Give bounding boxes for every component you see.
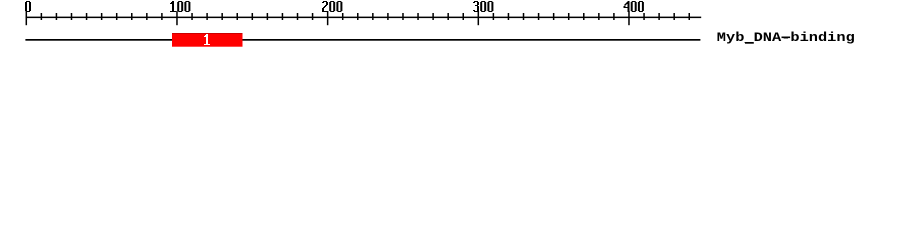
- ruler label 300: [473, 1, 493, 12]
- ruler line: [26, 17, 702, 19]
- ruler minor ticks: [41, 13, 690, 20]
- ruler label 200: [322, 1, 342, 12]
- domain box 1 (Myb_DNA-binding), drawn under domain number: [172, 33, 243, 47]
- ruler major tick 200: [327, 11, 329, 25]
- ruler major tick 100: [176, 11, 178, 25]
- ruler major tick 0: [26, 11, 28, 25]
- ruler label 400: [624, 1, 644, 12]
- widened underscore of label (bitmap-font style): [745, 42, 754, 44]
- domain number 1: [204, 34, 210, 45]
- ruler label 100: [170, 1, 190, 12]
- protein backbone line: [25, 39, 700, 41]
- ruler label 0: [25, 1, 31, 12]
- background: [0, 0, 900, 58]
- ruler major tick 400: [628, 11, 630, 25]
- ruler major tick 300: [478, 11, 480, 25]
- widened hyphen of label (bitmap-font style): [782, 37, 791, 39]
